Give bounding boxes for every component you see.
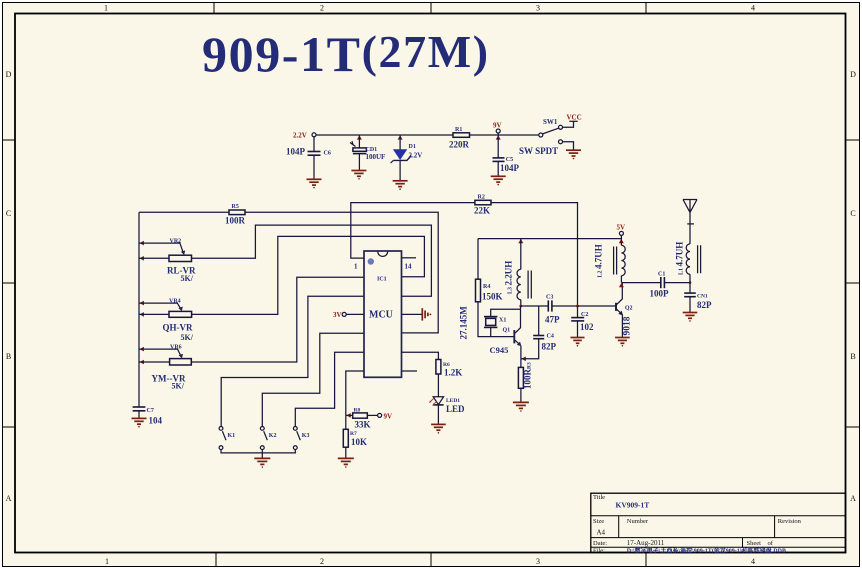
wire node line to C3 (521, 305, 548, 307)
switch K3 lever (297, 431, 301, 440)
capacitor C3 (548, 300, 552, 311)
svg-text:Date:: Date: (593, 540, 607, 547)
wire CN1 stem (689, 283, 691, 293)
frame tick 2/3 bottom (430, 553, 432, 567)
wire R3 to ground (520, 388, 522, 402)
ground under CD1 (351, 171, 366, 180)
switch K3 wire to MCU left pin row5 (295, 352, 364, 426)
switch K3 bottom contact (293, 446, 297, 450)
potentiometer VR4 wiper arrow (178, 307, 182, 312)
node 9V stub (497, 133, 499, 135)
transistor Q1 emitter arrow (517, 342, 522, 347)
capacitor CD1 electrolytic (350, 141, 366, 170)
title block row line 3 (591, 546, 846, 548)
svg-text:2: 2 (320, 4, 324, 13)
resistor R1 (453, 133, 470, 138)
capacitor C1 (661, 277, 665, 288)
junction VR6 wiper at bus (140, 347, 144, 352)
wire CD1 stem (358, 135, 360, 148)
wire VR2 wiper (139, 243, 183, 253)
ground under Q2 (615, 338, 630, 347)
svg-text:C3: C3 (546, 294, 553, 300)
junction antenna node (689, 281, 692, 284)
ground under C7 (132, 418, 147, 427)
junction C2 node (576, 305, 579, 308)
switch K1 lever (222, 431, 226, 440)
resistor R8 (353, 413, 368, 418)
frame tick 1/2 bottom (215, 553, 217, 567)
IC U1 notch (378, 251, 388, 256)
frame tick 3/4 top (645, 3, 647, 14)
potentiometer VR2 body (169, 255, 192, 261)
svg-text:C945: C945 (490, 345, 509, 355)
wire 3V to MCU pin row3 (346, 313, 364, 315)
svg-text:150K: 150K (482, 292, 503, 302)
wire collector node to C1 (621, 282, 660, 284)
ground at MCU right rotated (422, 308, 431, 320)
transistor Q2 emitter (617, 309, 622, 314)
wire L3 bottom stem (520, 300, 522, 306)
svg-text:C7: C7 (147, 408, 154, 414)
wire MCU right row3 to ground (402, 313, 422, 315)
svg-text:104: 104 (149, 416, 163, 426)
svg-text:K1: K1 (228, 433, 236, 439)
svg-text:Size: Size (593, 518, 604, 525)
svg-text:Number: Number (627, 518, 649, 525)
wire C1 to antenna node (664, 282, 690, 284)
svg-text:A: A (850, 494, 856, 503)
wire SW1 lower to ground (563, 142, 574, 150)
junction VR6 left at bus (140, 360, 144, 365)
switch K1 bottom contact (219, 446, 223, 450)
junction Q2 collector node (619, 283, 624, 287)
wire left bus (138, 212, 140, 406)
wire emitter to R3 (520, 359, 522, 368)
wire R5 right wrap to MCU pin row4 (245, 212, 438, 333)
wire VR4 wiper (139, 303, 181, 309)
potentiometer VR4 body (169, 311, 192, 317)
svg-text:102: 102 (580, 322, 594, 332)
svg-text:A4: A4 (597, 529, 606, 537)
title block col line size (618, 516, 620, 538)
svg-text:VR2: VR2 (170, 238, 182, 244)
wire R7 to ground (345, 447, 347, 458)
wire VR6 left (139, 361, 170, 363)
IC U1 MCU body (364, 251, 402, 377)
title block outline (591, 493, 846, 552)
switch SW1 common contact (539, 133, 543, 137)
wire R5 left (139, 211, 229, 213)
antenna symbol (683, 200, 697, 244)
wire 2.2V rail (316, 134, 453, 136)
switch K2 lever (264, 431, 268, 440)
switch K2 wire to MCU left pin row4 (262, 333, 364, 426)
ground under C5 (491, 176, 506, 185)
LED LED1 (430, 397, 444, 405)
ground under R3 (513, 402, 529, 411)
svg-text:4: 4 (751, 4, 755, 13)
svg-text:C2: C2 (581, 312, 588, 318)
wire Q1 emitter down (520, 346, 522, 359)
svg-text:5K/: 5K/ (181, 333, 194, 342)
switch K2 top contact (260, 427, 264, 431)
svg-text:Title: Title (593, 494, 605, 501)
diode D1 zener 2.2V (391, 149, 412, 180)
svg-text:X1: X1 (499, 317, 506, 323)
wire MCU right row5 to R6 (402, 352, 439, 359)
frame tick 3/4 bottom (645, 553, 647, 567)
svg-text:909-1T(27M): 909-1T(27M) (202, 26, 490, 82)
svg-text:1: 1 (354, 262, 358, 270)
svg-text:R5: R5 (232, 204, 239, 210)
svg-text:10K: 10K (351, 437, 367, 447)
junction osc node (519, 305, 522, 308)
ground under C6 (307, 179, 322, 188)
capacitor C7 (133, 407, 146, 418)
wire L3 top stem (520, 239, 522, 270)
ground under CN1 (683, 313, 698, 322)
svg-text:A: A (6, 494, 12, 503)
frame tick D/C right (846, 139, 860, 141)
resistor R3 (518, 367, 523, 388)
junction CD1 (357, 135, 362, 139)
frame tick C/B right (846, 282, 860, 284)
potentiometer VR2 wiper arrow (181, 250, 185, 255)
switch K1 wire to MCU left pin row2 (221, 296, 364, 426)
wire R2 left + pin1 drop (351, 203, 475, 259)
svg-text:KV909-1T: KV909-1T (616, 501, 650, 510)
svg-text:R8: R8 (354, 407, 361, 413)
svg-text:1: 1 (105, 557, 109, 566)
svg-text:R4: R4 (483, 284, 490, 290)
svg-text:File:: File: (593, 547, 605, 554)
wire Q2 emitter to ground (621, 315, 623, 338)
svg-text:LED: LED (446, 404, 465, 414)
svg-text:VCC: VCC (567, 113, 582, 121)
wire C3 to junction (552, 305, 578, 307)
frame tick B/A right (846, 426, 860, 428)
svg-text:C6: C6 (324, 151, 331, 157)
wire R4 stem (477, 239, 479, 280)
svg-text:104P: 104P (286, 147, 306, 157)
potentiometer VR6 wiper arrow (179, 354, 183, 359)
junction VR4 wiper at bus (140, 301, 144, 306)
transistor Q1 collector (515, 306, 521, 333)
svg-text:5V: 5V (617, 224, 626, 232)
junction 9V node (496, 135, 501, 139)
wire CN1 to ground (689, 297, 691, 312)
inductor L2 core (614, 247, 617, 275)
wire C2 to ground (577, 321, 579, 337)
inductor L3 (517, 269, 521, 299)
wire R6 to LED (437, 374, 439, 397)
wire VR2 right wrap to MCU right pin row2 (192, 225, 432, 296)
wire VR4 right wrap to MCU right pin row1 (192, 236, 425, 314)
ground under C2 (571, 338, 585, 347)
title block row line 2 (591, 537, 846, 539)
svg-text:SW1: SW1 (543, 118, 558, 126)
capacitor C4 (533, 336, 544, 339)
junction D1 (398, 135, 403, 139)
svg-text:47P: 47P (545, 314, 560, 324)
transistor Q1 emitter (515, 340, 520, 345)
svg-text:VR4: VR4 (169, 298, 181, 304)
svg-text:17-Aug-2011: 17-Aug-2011 (627, 539, 665, 547)
wire D1 stem (399, 135, 401, 150)
node 9V circle (496, 129, 500, 133)
svg-text:5K/: 5K/ (181, 274, 194, 283)
wire 5V rail (478, 238, 621, 240)
switch SW1 upper throw contact (559, 125, 563, 129)
frame tick 1/2 top (213, 3, 215, 14)
inductor L1 (686, 244, 690, 274)
svg-text:100UF: 100UF (366, 153, 386, 161)
svg-text:K3: K3 (302, 433, 310, 439)
wire L1 bottom stem (689, 274, 691, 282)
svg-text:220R: 220R (449, 139, 470, 149)
svg-text:B: B (850, 352, 855, 361)
svg-text:C: C (850, 209, 855, 218)
transistor Q2 base bar (615, 303, 617, 311)
resistor R4 (476, 279, 481, 302)
svg-text:3: 3 (536, 557, 540, 566)
switch SW1 lower throw contact (559, 140, 563, 144)
svg-text:27.145M: 27.145M (459, 306, 469, 340)
svg-text:B: B (6, 352, 11, 361)
svg-text:D1: D1 (409, 144, 416, 150)
title block row line 1 (591, 515, 846, 517)
switch K3 top contact (293, 427, 297, 431)
resistor R7 (343, 429, 348, 447)
node 2.2V circle (312, 133, 316, 137)
svg-text:Q1: Q1 (503, 327, 511, 333)
ground under K2 (254, 458, 270, 467)
svg-text:2.2V: 2.2V (293, 132, 307, 140)
antenna tick (687, 223, 694, 225)
wire L2 top stem (620, 235, 622, 245)
wire R8 to 9V circle (367, 414, 377, 416)
junction VR2 left at bus (140, 256, 144, 261)
wire C5 stem (497, 135, 499, 158)
svg-text:5K/: 5K/ (172, 382, 185, 391)
transistor Q2 collector (617, 283, 623, 305)
wire SW1 to VCC (563, 122, 574, 128)
svg-text:100R: 100R (225, 215, 246, 225)
svg-text:82P: 82P (542, 341, 557, 351)
svg-text:C1: C1 (658, 271, 665, 277)
svg-text:1.2K: 1.2K (444, 368, 462, 378)
junction VR2 wiper at bus (140, 241, 144, 246)
wire L2 bottom stem (620, 276, 622, 283)
junction 5V rail end (619, 239, 624, 243)
crystal X1 (484, 317, 497, 337)
wire C2 stem (577, 306, 579, 317)
resistor R6 (436, 360, 441, 375)
node 9V circle at R8 (378, 413, 382, 417)
svg-text:IC1: IC1 (377, 277, 387, 283)
svg-text:MCU: MCU (369, 310, 393, 321)
svg-text:Q2: Q2 (625, 306, 633, 312)
wire C4 stem top (538, 306, 540, 335)
frame tick D/C left (3, 139, 16, 141)
wire MCU left row6 to R8 junction (346, 371, 364, 415)
svg-text:C: C (6, 209, 11, 218)
transistor Q2 emitter arrow (618, 311, 623, 316)
frame tick 2/3 top (430, 3, 432, 14)
wire K bottoms common (221, 450, 295, 459)
wire X1 top link (491, 309, 521, 316)
junction emitter node (521, 357, 525, 362)
wire R4 to Q1 base (478, 302, 514, 337)
wire C6 stem (313, 137, 315, 152)
svg-text:D:\数字电子\王西系\遥控\909-1T(金龙909-1): D:\数字电子\王西系\遥控\909-1T(金龙909-1)和陈辉镜盘.DDB (627, 546, 786, 554)
wire VR4 left (139, 313, 169, 315)
svg-text:3V: 3V (333, 311, 342, 319)
svg-text:9V: 9V (384, 412, 393, 420)
wire node to Q2 base (578, 305, 616, 307)
wire junction to R8 (346, 414, 353, 416)
node 3V circle (342, 312, 346, 316)
inductor L1 core (698, 245, 701, 273)
svg-text:VR6: VR6 (170, 344, 182, 350)
svg-text:104P: 104P (500, 163, 520, 173)
switch SW1 lever (543, 128, 559, 134)
switch K2 bottom contact (260, 446, 264, 450)
svg-text:1: 1 (104, 4, 108, 13)
node 5V circle (619, 231, 623, 235)
svg-text:9018: 9018 (623, 316, 633, 335)
svg-text:4: 4 (751, 557, 755, 566)
svg-text:3: 3 (536, 4, 540, 13)
svg-text:QH-VR: QH-VR (163, 322, 193, 332)
svg-text:33K: 33K (355, 419, 371, 429)
junction L3 top (518, 239, 523, 243)
IC U1 pin1 dot (368, 258, 374, 264)
title block col line revision (774, 516, 776, 538)
svg-text:D: D (6, 70, 12, 79)
switch K1 top contact (219, 427, 223, 431)
svg-text:R1: R1 (455, 127, 462, 133)
svg-text:SW SPDT: SW SPDT (519, 146, 558, 156)
transistor Q1 base bar (513, 330, 515, 343)
svg-text:14: 14 (405, 262, 413, 270)
wire R2 right down to C2 node (491, 203, 578, 306)
wire junction to R7 (345, 415, 347, 429)
svg-text:CN1: CN1 (697, 293, 708, 299)
svg-text:K2: K2 (269, 433, 277, 439)
frame tick B/A left (3, 426, 16, 428)
svg-text:9V: 9V (493, 122, 502, 130)
svg-text:Sheet of: Sheet of (747, 540, 774, 547)
wire LED to ground (437, 405, 439, 424)
svg-text:Revision: Revision (778, 518, 802, 525)
capacitor C2 (571, 318, 584, 321)
svg-text:82P: 82P (697, 300, 712, 310)
wire VR2 left (139, 257, 169, 259)
junction R8 node (346, 413, 350, 418)
ground under D1 (393, 181, 408, 190)
capacitor CN1 (684, 293, 696, 297)
svg-text:D: D (850, 70, 856, 79)
resistor R2 (475, 200, 491, 205)
resistor R5 (229, 210, 245, 215)
title block col line sheet (742, 538, 744, 548)
ground at SW1 (566, 150, 581, 159)
inductor L2 (621, 245, 625, 275)
ground under R7 (338, 458, 354, 467)
ground under LED (431, 424, 446, 433)
svg-text:22K: 22K (474, 206, 490, 216)
svg-text:100P: 100P (650, 288, 670, 298)
wire C4 bottom to emitter node (521, 339, 539, 359)
inductor L3 core (528, 271, 531, 299)
wire MCU pin14 stub (402, 257, 417, 259)
svg-text:2.2V: 2.2V (409, 151, 423, 159)
svg-text:2: 2 (320, 557, 324, 566)
wire VR6 right to MCU left pin row1 (191, 277, 364, 362)
wire MCU right row6 stub (402, 370, 418, 372)
junction VR4 left at bus (140, 312, 144, 317)
power VCC symbol (569, 120, 577, 122)
svg-text:C4: C4 (547, 333, 554, 339)
svg-text:R2: R2 (478, 194, 485, 200)
wire VR6 wiper (139, 349, 181, 356)
potentiometer VR6 body (170, 359, 192, 365)
wire R1 to 9V node (470, 134, 540, 136)
capacitor C6 (308, 152, 321, 179)
capacitor C5 (493, 158, 505, 176)
frame tick C/B left (3, 282, 16, 284)
